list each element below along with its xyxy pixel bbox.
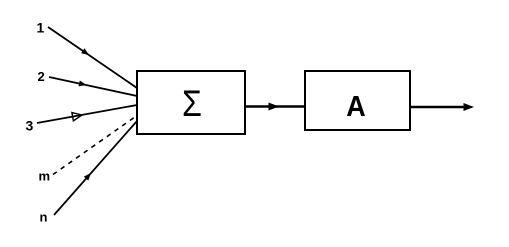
svg-text:2: 2 bbox=[38, 69, 45, 84]
svg-text:n: n bbox=[40, 210, 48, 225]
svg-text:m: m bbox=[39, 169, 51, 184]
svg-text:Σ: Σ bbox=[182, 84, 202, 125]
svg-text:1: 1 bbox=[37, 20, 45, 36]
svg-text:3: 3 bbox=[26, 118, 34, 134]
svg-text:A: A bbox=[346, 90, 365, 122]
